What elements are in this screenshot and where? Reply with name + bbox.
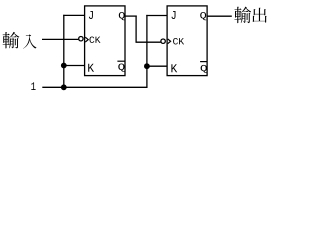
wire Q1 jog vertical (135, 16, 137, 43)
U2 CK input bubble (161, 39, 165, 43)
wire K2 horizontal (147, 65, 167, 67)
wire K1 horizontal (64, 65, 85, 67)
U2 pin label Q (200, 12, 206, 20)
U2 clock edge triangle (168, 39, 171, 44)
U1 pin label Q (119, 12, 125, 20)
wire Q2 to output (207, 15, 232, 17)
junction dot at bus and 1-branch (61, 84, 67, 90)
junction dot at K2 branch (144, 63, 150, 69)
label 1 (logic high constant) (31, 82, 35, 90)
wire J1 horizontal (63, 14, 84, 16)
U2 pin label K (171, 64, 177, 72)
wire input to CK1 bubble (42, 38, 78, 40)
JK flip-flop U1 box (85, 6, 125, 76)
U1 pin label Q-bar (118, 64, 124, 72)
U1 pin label K (88, 64, 94, 72)
U1 pin label J (89, 11, 93, 19)
wire Q1 out horizontal (125, 15, 137, 17)
label 輸出 (output net) (234, 7, 266, 23)
wire 1 bus horizontal (42, 86, 147, 88)
wire 1-branch vertical to J2 K2 (146, 15, 148, 88)
U2 pin label CK (173, 38, 184, 45)
wire J2 horizontal (146, 15, 167, 17)
wire to CK2 bubble (136, 41, 161, 43)
U1 CK input bubble (79, 37, 83, 41)
wire 1-branch vertical to J1 K1 (63, 15, 65, 88)
junction dot at K1 branch (61, 63, 67, 69)
JK flip-flop U2 box (167, 6, 207, 76)
U2 pin label Q-bar (201, 65, 207, 73)
U1 clock edge triangle (85, 37, 88, 42)
U2 pin label J (172, 11, 176, 19)
U1 pin label CK (89, 36, 100, 43)
label 輸入 (input net) (3, 32, 37, 49)
